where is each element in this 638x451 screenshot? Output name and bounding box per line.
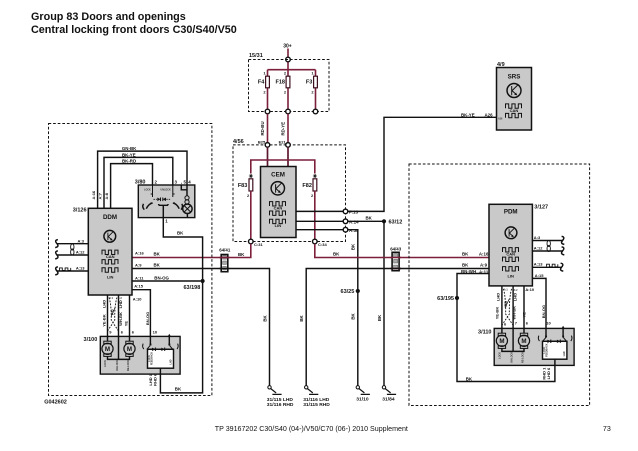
wire BK-YE DDM A:7 to 3/80 pin 3	[104, 152, 173, 208]
svg-text:A:9: A:9	[135, 263, 142, 268]
svg-text:BK: BK	[333, 251, 340, 256]
passenger door dashed enclosure	[409, 164, 590, 406]
svg-text:A:16: A:16	[91, 190, 96, 199]
svg-text:A:10: A:10	[133, 296, 142, 301]
svg-text:10: 10	[546, 321, 551, 326]
svg-text:31/115 LHD: 31/115 LHD	[267, 397, 294, 403]
svg-text:C:31: C:31	[254, 242, 263, 247]
wire RHD crossover dashed right	[502, 289, 513, 325]
connector 64/41	[219, 248, 231, 272]
control module PDM 3/127	[489, 204, 548, 286]
wire PDM A:10 to 3/110	[523, 286, 525, 329]
wire CEM A:38	[296, 229, 343, 231]
svg-text:F82: F82	[302, 183, 311, 189]
svg-text:M: M	[105, 346, 110, 353]
svg-text:73: 73	[603, 425, 611, 433]
svg-text:Group 83 Doors and openings: Group 83 Doors and openings	[31, 11, 186, 23]
wire bus BK maroon DDM A:16 to C:31	[132, 244, 251, 258]
lock motor unit 3/100	[84, 336, 181, 374]
svg-text:A:16: A:16	[479, 252, 489, 257]
svg-text:LIN: LIN	[107, 275, 114, 280]
twisted pair symbol right	[547, 240, 550, 251]
svg-text:A:11: A:11	[479, 269, 489, 274]
svg-text:LIN: LIN	[507, 273, 514, 278]
wire A:12 twisted pair right	[532, 245, 564, 255]
svg-text:E21: E21	[279, 139, 287, 144]
twisted pair symbol	[71, 244, 74, 255]
svg-text:F18: F18	[276, 80, 285, 86]
svg-text:TP 39167202 C30/S40 (04-)/V50/: TP 39167202 C30/S40 (04-)/V50/C70 (06-) …	[215, 425, 408, 433]
wire PDM A:1 to 3/110	[501, 286, 503, 329]
svg-text:LHD: LHD	[101, 300, 106, 308]
svg-text:31/115 RHD: 31/115 RHD	[303, 402, 330, 408]
wire label RD struck	[109, 308, 115, 317]
wire DDM A:1 to 3/100	[107, 295, 109, 336]
node F:13	[343, 209, 358, 214]
svg-text:4/56: 4/56	[233, 139, 244, 145]
svg-text:WH-BK: WH-BK	[512, 306, 517, 320]
svg-text:F3: F3	[306, 80, 312, 86]
driver door dashed enclosure	[49, 124, 212, 396]
svg-text:BK-YE: BK-YE	[461, 112, 475, 117]
control module DDM 3/126	[73, 208, 132, 296]
node 30+ supply	[283, 44, 292, 70]
svg-text:64/43: 64/43	[390, 247, 402, 252]
svg-text:3/127: 3/127	[534, 205, 548, 211]
wire BN-WH PDM A:11 to 63/195 to lock unit	[457, 269, 489, 296]
fuse F82	[302, 174, 316, 239]
wire GN-BK DDM A:16 to 3/80 pin 4	[98, 146, 187, 208]
svg-text:BN-WH: BN-WH	[461, 269, 476, 274]
svg-text:A:3: A:3	[78, 238, 85, 243]
splice 63/198	[183, 279, 204, 291]
svg-text:LHD: LHD	[496, 293, 501, 301]
svg-text:A:15: A:15	[134, 284, 143, 289]
wire CEM A:14	[296, 220, 343, 222]
svg-text:BK-RD: BK-RD	[122, 159, 136, 164]
svg-text:GN-BK: GN-BK	[122, 146, 137, 151]
wire BK 63/195 to 3/110 lock unit	[457, 300, 555, 382]
svg-text:LHD: LHD	[169, 359, 172, 364]
motor M driver deadlock	[119, 336, 136, 359]
wire BK 63/12 to ground 31/84	[377, 221, 384, 385]
svg-text:RD-BU: RD-BU	[260, 121, 265, 135]
svg-text:31/10: 31/10	[356, 396, 369, 402]
svg-text:Central locking front doors C3: Central locking front doors C30/S40/V50	[31, 24, 237, 36]
svg-text:63/195: 63/195	[437, 296, 454, 302]
wire fuse rail	[268, 69, 316, 71]
svg-text:CAN: CAN	[106, 254, 115, 259]
svg-text:15/31: 15/31	[249, 53, 263, 59]
svg-text:BK: BK	[262, 315, 267, 322]
wire branch to internal fuses	[251, 160, 315, 174]
wire BK 3/80 pin 1 to splice 63/198 to 3/100	[160, 218, 202, 393]
svg-text:BK-YE: BK-YE	[122, 152, 136, 157]
svg-text:M: M	[521, 338, 526, 345]
svg-text:YE-BK: YE-BK	[101, 314, 106, 327]
svg-text:BK: BK	[154, 251, 161, 256]
lock position switch in 3/110	[538, 326, 572, 366]
svg-text:LHD: LHD	[118, 300, 123, 308]
node B25	[258, 139, 270, 147]
svg-text:3/100: 3/100	[84, 337, 98, 343]
svg-text:A:16: A:16	[135, 251, 144, 256]
wire A:3 twisted pair right	[532, 235, 564, 245]
svg-text:31/116 LHD: 31/116 LHD	[303, 397, 330, 403]
svg-text:LHD: LHD	[513, 293, 518, 301]
splice 63/25	[341, 289, 360, 295]
svg-text:RHD 6: RHD 6	[153, 373, 158, 386]
lock motor unit 3/110	[478, 328, 574, 365]
svg-text:WH-BK: WH-BK	[118, 312, 123, 326]
svg-text:, 5: , 5	[181, 180, 186, 185]
svg-text:YE-BK: YE-BK	[494, 307, 499, 320]
fuse F4	[258, 70, 270, 112]
svg-text:BN-OG: BN-OG	[145, 312, 150, 325]
svg-text:YE: YE	[522, 312, 527, 318]
wire bus BK black to ground 31/116 and PDM A:9	[299, 262, 489, 385]
svg-text:BK: BK	[462, 251, 469, 256]
motor M passenger deadlock	[513, 328, 530, 351]
svg-text:LOCK: LOCK	[144, 189, 151, 192]
ground 31/10	[356, 386, 370, 403]
svg-text:CAN: CAN	[274, 205, 283, 210]
svg-text:PDM: PDM	[504, 209, 518, 216]
wire DDM A:2 to 3/100	[118, 295, 120, 336]
svg-text:F83: F83	[238, 183, 247, 189]
svg-text:63/25: 63/25	[341, 289, 355, 295]
wire BN-OG DDM A:11 to 63/198	[132, 275, 201, 281]
svg-text:B25: B25	[258, 139, 266, 144]
wire RD-BU F4 to B25	[260, 114, 268, 143]
svg-text:M: M	[499, 338, 504, 345]
connector 64/43	[390, 247, 402, 271]
node A:38	[343, 227, 359, 232]
node E21	[279, 139, 291, 147]
fuse F83	[238, 174, 253, 239]
svg-text:A:2: A:2	[514, 289, 519, 292]
fuse F18	[276, 70, 290, 112]
ground 31/115 LHD / 31/116 RHD	[267, 386, 294, 409]
wire bus BK maroon C:34 to PDM A:16	[315, 244, 489, 258]
wire A:13 LIN	[55, 266, 88, 275]
lock position switch in 3/100	[143, 334, 179, 374]
svg-text:DDM: DDM	[103, 214, 117, 221]
control module CEM	[261, 167, 297, 238]
control module SRS 4/9	[497, 62, 532, 130]
svg-text:A:13: A:13	[534, 262, 543, 267]
svg-text:LHD: LHD	[563, 351, 566, 356]
svg-text:FEEDBACK: FEEDBACK	[151, 352, 154, 366]
svg-text:BK: BK	[377, 314, 382, 321]
svg-text:RE-LOCK: RE-LOCK	[522, 352, 525, 363]
wire A:3 twisted pair	[55, 238, 88, 247]
svg-text:31/116 RHD: 31/116 RHD	[267, 402, 294, 408]
svg-text:BK: BK	[299, 315, 304, 322]
wire BK 63/25 to ground 31/10	[351, 293, 358, 386]
svg-text:3/126: 3/126	[73, 208, 87, 214]
svg-text:A:3: A:3	[534, 235, 541, 240]
motor M passenger lock	[496, 328, 513, 351]
svg-text:A26: A26	[485, 112, 494, 117]
svg-text:SRS: SRS	[508, 73, 521, 80]
wire BN-OG PDM A:15 to 3/110 pin 10	[532, 273, 546, 329]
wire DDM A:10 to 3/100	[129, 295, 131, 336]
svg-text:C:34: C:34	[318, 242, 327, 247]
svg-text:A:1: A:1	[109, 297, 114, 300]
lamp lock illumination	[183, 204, 192, 213]
CEM dashed enclosure 4/56	[233, 139, 346, 242]
svg-text:63/198: 63/198	[183, 285, 200, 291]
wire label RD struck right	[503, 299, 509, 308]
ground 31/116 LHD / 31/115 RHD	[303, 386, 330, 409]
svg-text:A:15: A:15	[535, 273, 544, 278]
svg-text:YE: YE	[124, 321, 129, 327]
node C:34	[313, 239, 328, 247]
svg-text:A26: A26	[498, 118, 503, 121]
svg-text:10: 10	[153, 330, 158, 335]
svg-text:F4: F4	[258, 80, 265, 86]
svg-text:FEEDBACK: FEEDBACK	[546, 343, 549, 357]
fuse F3	[306, 70, 318, 112]
svg-text:BK: BK	[351, 243, 356, 250]
svg-text:LOCK: LOCK	[104, 360, 107, 367]
svg-text:A:9: A:9	[480, 262, 488, 267]
splice 63/195	[437, 296, 459, 302]
svg-text:64/41: 64/41	[219, 248, 231, 253]
svg-text:A:12: A:12	[534, 245, 543, 250]
wire E21 to CEM pin	[287, 147, 289, 166]
svg-text:A:1: A:1	[504, 289, 509, 292]
wire RD-YE F18 to E21	[280, 114, 288, 143]
svg-text:LIN: LIN	[275, 223, 282, 228]
svg-text:A:11: A:11	[135, 275, 144, 280]
wire PDM A:2 to 3/110	[512, 286, 514, 329]
node F3 output	[313, 109, 318, 114]
svg-text:CEM: CEM	[271, 171, 285, 178]
svg-text:RE-LOCK: RE-LOCK	[127, 360, 130, 371]
node A:14	[343, 219, 359, 224]
wire BK-YE F:13 to SRS A26	[348, 112, 497, 211]
svg-text:BK: BK	[238, 252, 245, 257]
svg-text:UNLOCK: UNLOCK	[161, 189, 171, 192]
svg-text:CAN: CAN	[510, 108, 519, 113]
svg-text:A:12: A:12	[76, 250, 85, 255]
svg-text:LHD 6: LHD 6	[546, 367, 551, 379]
motor M driver lock	[102, 336, 119, 359]
node F18 output	[286, 109, 291, 114]
wire RHD crossover dashed	[108, 298, 119, 331]
svg-text:BN-OG: BN-OG	[541, 305, 546, 318]
svg-text:LOCK: LOCK	[499, 352, 502, 359]
svg-text:A:8: A:8	[104, 192, 109, 199]
svg-text:M: M	[127, 346, 132, 353]
wire A:12 twisted pair	[55, 250, 88, 259]
svg-text:UN-LOCK: UN-LOCK	[510, 352, 513, 363]
svg-text:BK: BK	[175, 387, 182, 392]
wire bus BK black DDM A:9 to ground 31/115	[132, 263, 270, 386]
svg-text:63/12: 63/12	[389, 220, 403, 226]
svg-text:BN-OG: BN-OG	[154, 275, 169, 280]
ground 31/84	[382, 386, 396, 403]
wire BK A:14 to splice 63/12	[348, 216, 384, 222]
node C:31	[249, 239, 264, 247]
svg-text:3/110: 3/110	[478, 329, 491, 335]
svg-text:BK: BK	[154, 263, 161, 268]
svg-text:UN-LOCK: UN-LOCK	[116, 360, 119, 371]
wire A:38 to splice 63/25	[348, 230, 358, 289]
svg-text:BK: BK	[462, 262, 469, 267]
wire BN-OG DDM A:15 to 3/100 pin 10	[132, 284, 150, 337]
svg-text:A:13: A:13	[76, 266, 85, 271]
switch 3/80 central locking	[135, 180, 195, 224]
splice 63/12	[382, 219, 402, 226]
fuse box 15/31 dashed enclosure	[249, 53, 330, 112]
svg-text:G042602: G042602	[44, 400, 67, 406]
svg-text:A:7: A:7	[98, 192, 103, 199]
svg-text:RD-YE: RD-YE	[280, 122, 285, 136]
wire CEM F:13	[296, 210, 343, 212]
svg-text:BK: BK	[177, 230, 184, 235]
svg-text:A:2: A:2	[118, 297, 123, 300]
svg-text:A:10: A:10	[525, 287, 534, 292]
svg-text:BK: BK	[466, 376, 473, 381]
svg-text:BK: BK	[366, 216, 373, 221]
svg-text:CAN: CAN	[506, 252, 515, 257]
wire B25 to CEM pin	[267, 147, 269, 166]
svg-text:BK: BK	[351, 313, 356, 320]
node F4 output	[265, 109, 270, 114]
svg-text:31/84: 31/84	[382, 396, 395, 402]
wire BK-RD DDM A:8 to 3/80 pin 2	[111, 159, 153, 209]
wire A:13 LIN right	[532, 262, 563, 272]
